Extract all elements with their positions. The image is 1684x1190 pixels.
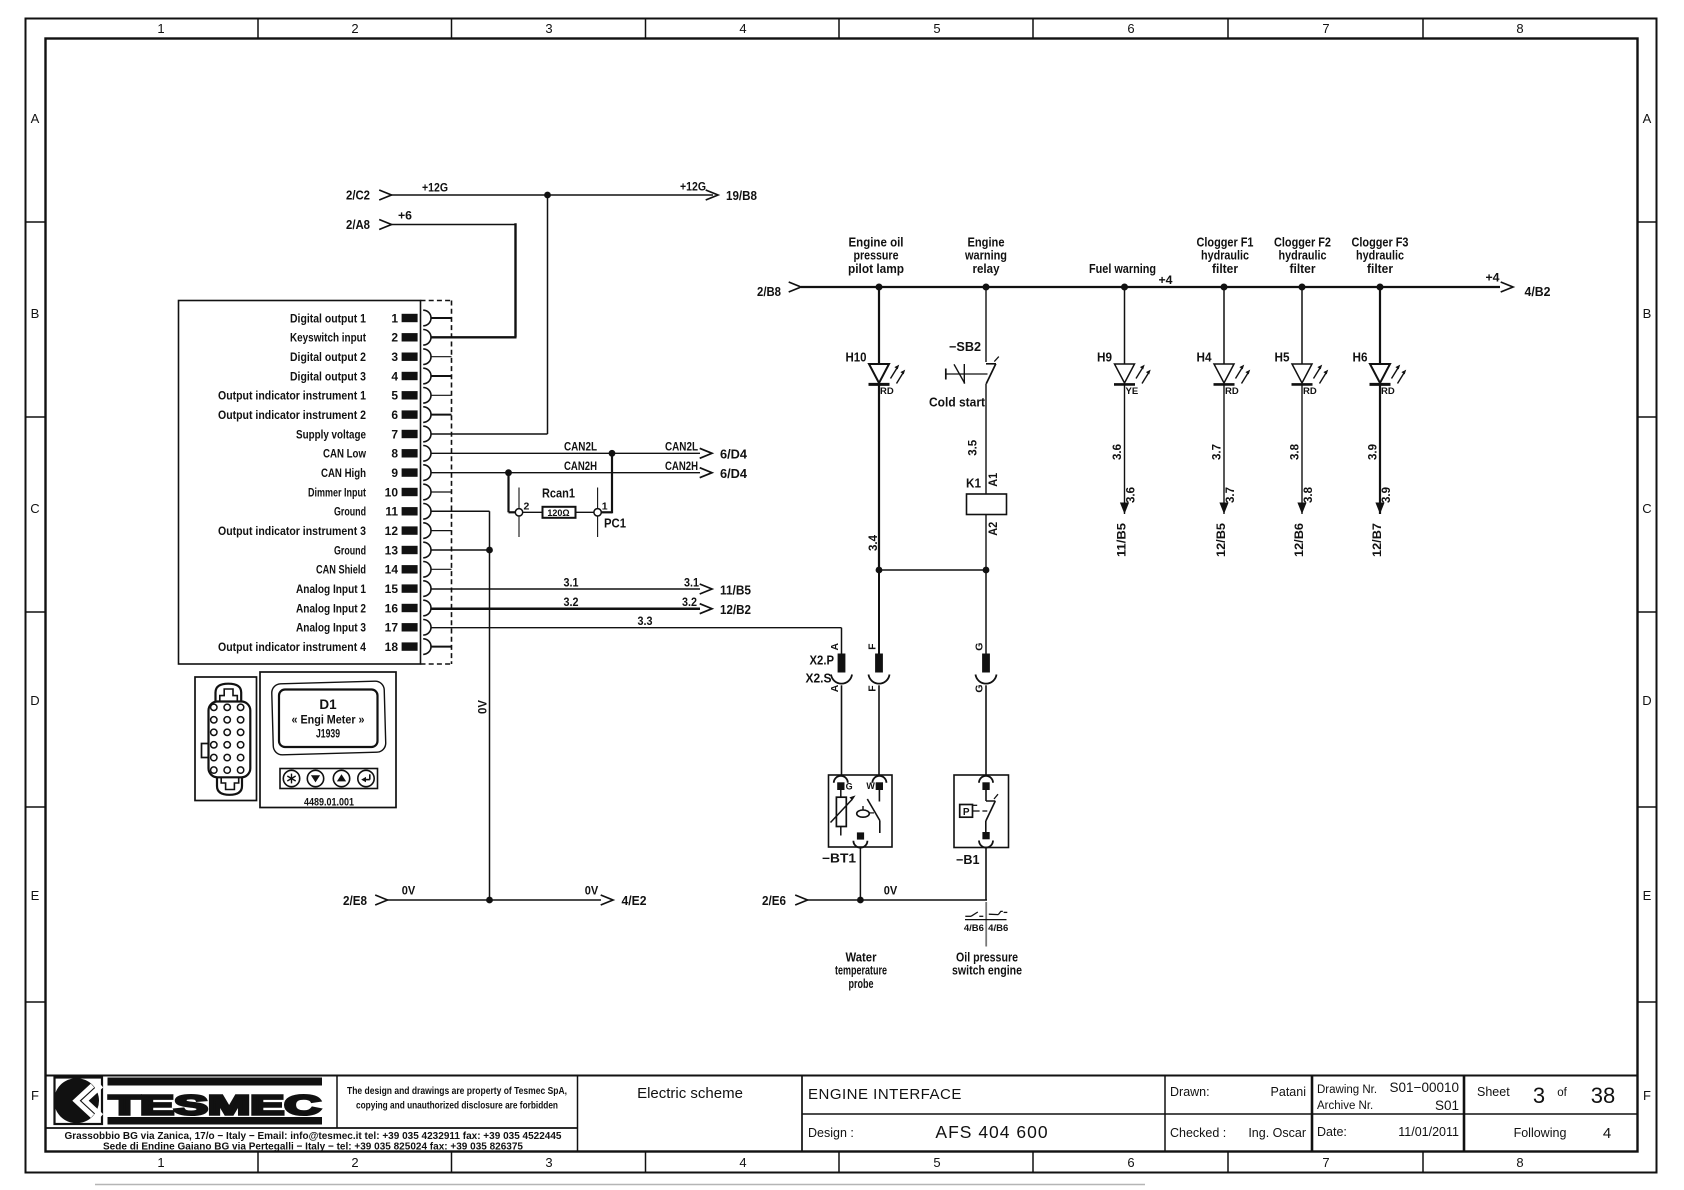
title block	[46, 1076, 1638, 1153]
svg-text:warning: warning	[964, 249, 1007, 263]
svg-text:3.9: 3.9	[1368, 444, 1380, 460]
svg-text:4: 4	[391, 369, 398, 383]
svg-text:11: 11	[385, 505, 398, 519]
connector X2.P / X2.S labels	[806, 654, 835, 686]
svg-text:Engine: Engine	[968, 236, 1005, 250]
wire CAN2H drop to Rcan1 pin 2	[509, 473, 516, 513]
svg-text:The design and drawings are pr: The design and drawings are property of …	[347, 1085, 567, 1097]
svg-text:H4: H4	[1197, 351, 1212, 365]
pin 7 Supply voltage	[296, 426, 431, 442]
svg-text:YE: YE	[1126, 386, 1139, 397]
svg-text:Patani: Patani	[1271, 1085, 1306, 1099]
svg-text:Output indicator instrument 4: Output indicator instrument 4	[218, 640, 366, 654]
pin 5 Output indicator instrument 1	[218, 388, 452, 404]
svg-text:Drawing Nr.: Drawing Nr.	[1317, 1084, 1377, 1096]
svg-text:Grassobbio BG via Zanica, 17: Grassobbio BG via Zanica, 17/o − Italy −…	[65, 1131, 562, 1142]
svg-text:12: 12	[385, 524, 399, 538]
svg-text:Engine oil: Engine oil	[849, 236, 904, 250]
junction 0V / pin11 ground node	[486, 897, 493, 904]
svg-text:5: 5	[933, 21, 940, 36]
svg-text:A: A	[31, 111, 40, 126]
svg-text:RD: RD	[1303, 386, 1317, 397]
connector block: 18-pin engine-interface connector	[179, 301, 452, 665]
svg-text:1: 1	[391, 311, 398, 325]
svg-text:E: E	[1643, 888, 1652, 903]
wire 3.3 pin 17 analog input 3 to X2.P pin A	[431, 616, 842, 654]
svg-text:H10: H10	[846, 351, 867, 365]
svg-text:RD: RD	[1225, 386, 1239, 397]
wire BT1 to 0V rail	[859, 848, 861, 900]
svg-text:3: 3	[1533, 1083, 1545, 1108]
svg-text:RD: RD	[880, 386, 894, 397]
svg-text:Ing. Oscar: Ing. Oscar	[1248, 1126, 1306, 1140]
lamp H6 (RD) indicator	[1353, 287, 1407, 397]
svg-text:14: 14	[385, 563, 399, 577]
svg-text:8: 8	[1516, 21, 1523, 36]
svg-text:5: 5	[391, 389, 398, 403]
svg-text:4: 4	[739, 1155, 746, 1170]
svg-text:+4: +4	[1159, 275, 1174, 287]
svg-text:2: 2	[524, 501, 530, 513]
junction +12G node	[544, 192, 551, 199]
svg-text:4: 4	[1603, 1125, 1611, 1142]
svg-text:filter: filter	[1212, 262, 1238, 276]
node label water temperature probe	[835, 951, 887, 991]
svg-text:RD: RD	[1381, 386, 1395, 397]
svg-text:15: 15	[385, 582, 399, 596]
svg-text:+4: +4	[1486, 273, 1501, 285]
wire +12G drop to pin 7 supply voltage	[431, 195, 548, 434]
svg-text:probe: probe	[849, 977, 874, 991]
svg-text:F: F	[1643, 1088, 1651, 1103]
lamp H10 (RD) indicator	[846, 287, 906, 397]
junction CAN2L node	[609, 450, 616, 457]
svg-text:10: 10	[385, 485, 399, 499]
svg-text:4/B2: 4/B2	[1525, 285, 1551, 299]
svg-text:Analog Input 1: Analog Input 1	[296, 582, 366, 596]
svg-text:A: A	[1643, 111, 1652, 126]
junction CAN2H node	[505, 469, 512, 476]
svg-text:3.2: 3.2	[564, 597, 579, 609]
svg-text:D: D	[30, 693, 39, 708]
svg-text:CAN2L: CAN2L	[564, 440, 597, 454]
pin 17 Analog Input 3	[296, 619, 431, 635]
svg-text:Output indicator instrument 3: Output indicator instrument 3	[218, 524, 366, 538]
svg-text:Date:: Date:	[1317, 1125, 1347, 1139]
svg-text:+6: +6	[398, 209, 412, 223]
svg-text:11/B5: 11/B5	[1117, 522, 1129, 557]
svg-text:Ground: Ground	[334, 543, 366, 557]
wire 3.8 lamp branch to 12/B6	[1290, 386, 1316, 558]
pin 9 CAN High	[321, 465, 431, 481]
wire pin 13 ground to 0V node	[431, 549, 490, 551]
svg-text:Ground: Ground	[334, 505, 366, 519]
svg-text:−B1: −B1	[956, 853, 980, 867]
connector X2 pin F	[867, 643, 890, 692]
svg-text:11/B5: 11/B5	[720, 584, 751, 598]
svg-text:1: 1	[602, 501, 608, 513]
pin 12 Output indicator instrument 3	[218, 523, 452, 539]
svg-text:X2.P: X2.P	[810, 654, 835, 668]
display D1 engine meter 4489.01.001	[260, 672, 396, 809]
svg-text:+12G: +12G	[422, 181, 448, 195]
pin 16 Analog Input 2	[296, 600, 431, 616]
svg-text:F: F	[31, 1088, 39, 1103]
wire 0V from pin 11 ground	[431, 511, 490, 900]
svg-text:3.8: 3.8	[1290, 443, 1302, 460]
svg-text:2/E8: 2/E8	[343, 894, 367, 908]
wire X2 pin F to BT1 W	[878, 685, 880, 775]
svg-text:3.9: 3.9	[1381, 487, 1393, 503]
svg-text:−SB2: −SB2	[949, 340, 981, 354]
svg-text:CAN2L: CAN2L	[665, 440, 698, 454]
svg-text:TESMEC: TESMEC	[109, 1090, 321, 1121]
svg-text:S01: S01	[1435, 1098, 1459, 1113]
wire B1 to 0V rail	[985, 848, 987, 901]
svg-text:7: 7	[391, 427, 398, 441]
wire 3.2 pin 16 analog input 2 to 12/B2	[431, 597, 751, 617]
svg-text:A1: A1	[988, 472, 1000, 487]
wire PC1.1 up to CAN2L	[601, 453, 612, 513]
svg-text:6/D4: 6/D4	[720, 467, 747, 481]
connector X2 pin G	[974, 643, 997, 693]
svg-text:« Engi Meter »: « Engi Meter »	[292, 715, 365, 727]
wire X2 pin A to BT1 G	[841, 685, 843, 775]
svg-text:3.7: 3.7	[1212, 444, 1224, 460]
svg-text:0V: 0V	[884, 886, 898, 898]
svg-text:Archive Nr.: Archive Nr.	[1317, 1100, 1373, 1112]
svg-text:120Ω: 120Ω	[547, 508, 569, 518]
svg-text:Design :: Design :	[808, 1126, 854, 1140]
svg-text:Clogger F3: Clogger F3	[1352, 236, 1409, 250]
svg-text:A2: A2	[988, 522, 1000, 536]
svg-text:18: 18	[385, 640, 399, 654]
junction pin13/0V node	[486, 547, 493, 554]
svg-text:8: 8	[391, 447, 398, 461]
svg-text:G: G	[974, 684, 986, 692]
svg-text:F: F	[867, 685, 879, 692]
wire 3.7 lamp branch to 12/B5	[1212, 386, 1238, 558]
svg-text:E: E	[31, 888, 40, 903]
svg-text:3.8: 3.8	[1303, 486, 1315, 503]
svg-text:Analog Input 3: Analog Input 3	[296, 621, 366, 635]
svg-text:3.5: 3.5	[967, 439, 979, 456]
svg-text:B: B	[31, 306, 40, 321]
svg-text:filter: filter	[1367, 262, 1393, 276]
svg-text:of: of	[1557, 1087, 1567, 1099]
pin 14 CAN Shield	[316, 562, 452, 578]
wire link H10 branch to K1 branch	[879, 569, 986, 571]
svg-text:7: 7	[1322, 21, 1329, 36]
svg-text:CAN Shield: CAN Shield	[316, 563, 366, 577]
connector PC1 pin 1	[594, 488, 626, 538]
svg-text:C: C	[1642, 501, 1651, 516]
node labels above +4 bus	[848, 236, 1409, 276]
svg-text:1: 1	[157, 1155, 164, 1170]
wire CAN2L pin 8 to 6/D4	[431, 440, 747, 462]
svg-text:3.2: 3.2	[682, 597, 697, 609]
svg-text:Sede di Endine Gaiano BG via P: Sede di Endine Gaiano BG via Pertegalli …	[103, 1142, 523, 1153]
svg-text:switch engine: switch engine	[952, 964, 1022, 978]
pin 1 Digital output 1	[290, 310, 452, 326]
wire X2 pin G to B1	[985, 685, 987, 775]
svg-text:D1: D1	[319, 697, 337, 712]
svg-text:Keyswitch input: Keyswitch input	[290, 331, 366, 345]
svg-text:H6: H6	[1353, 351, 1368, 365]
svg-text:2: 2	[351, 1155, 358, 1170]
svg-text:S01−00010: S01−00010	[1390, 1080, 1459, 1095]
wire K1 branch down to X2 pin G	[985, 570, 987, 654]
svg-text:A: A	[829, 642, 841, 650]
junction +4 bus nodes	[876, 284, 1384, 291]
svg-text:2/C2: 2/C2	[346, 189, 370, 203]
wire CAN2H pin 9 to 6/D4	[431, 459, 747, 481]
svg-text:pressure: pressure	[854, 249, 899, 263]
svg-text:F: F	[867, 643, 879, 650]
svg-text:4/B6: 4/B6	[964, 923, 984, 934]
svg-text:16: 16	[385, 601, 399, 615]
wire 3.5 SB2 to K1 coil A1	[967, 384, 1000, 494]
wire 3.9 lamp branch to 12/B7	[1368, 386, 1394, 558]
svg-text:3.4: 3.4	[868, 534, 880, 551]
svg-text:ENGINE INTERFACE: ENGINE INTERFACE	[808, 1086, 962, 1103]
svg-text:Digital output 3: Digital output 3	[290, 369, 366, 383]
wire +4 bus from 2/B8 to 4/B2	[757, 273, 1551, 299]
svg-text:38: 38	[1591, 1083, 1615, 1108]
svg-text:13: 13	[385, 543, 399, 557]
pin 6 Output indicator instrument 2	[218, 407, 452, 423]
svg-text:2: 2	[391, 331, 398, 345]
svg-text:Cold start: Cold start	[929, 396, 986, 410]
svg-text:19/B8: 19/B8	[726, 189, 757, 203]
svg-text:D: D	[1642, 693, 1651, 708]
svg-text:0V: 0V	[402, 886, 416, 898]
wire +12G from 2/C2 to 19/B8	[346, 180, 757, 204]
svg-text:G: G	[846, 781, 853, 791]
pin 3 Digital output 2	[290, 349, 452, 365]
svg-text:Digital output 2: Digital output 2	[290, 350, 366, 364]
svg-text:Following: Following	[1514, 1126, 1567, 1140]
svg-text:X2.S: X2.S	[806, 672, 832, 686]
svg-text:Fuel warning: Fuel warning	[1089, 262, 1156, 276]
wire 0V rail from 2/E8 to 4/E2	[343, 886, 647, 908]
svg-text:H9: H9	[1097, 351, 1112, 365]
svg-text:+12G: +12G	[680, 180, 706, 194]
svg-text:hydraulic: hydraulic	[1201, 249, 1249, 263]
svg-text:Clogger F2: Clogger F2	[1274, 236, 1331, 250]
svg-text:17: 17	[385, 621, 399, 635]
pin 18 Output indicator instrument 4	[218, 639, 452, 655]
svg-text:Oil pressure: Oil pressure	[956, 951, 1018, 965]
wire 3.4 H10 to X2.S pin F	[868, 384, 880, 570]
svg-text:11/01/2011: 11/01/2011	[1398, 1125, 1459, 1139]
wire Rcan1 to PC1.1	[576, 511, 595, 513]
svg-text:B: B	[1643, 306, 1652, 321]
svg-text:3.6: 3.6	[1112, 444, 1124, 460]
svg-text:Drawn:: Drawn:	[1170, 1085, 1210, 1099]
svg-text:Analog Input 2: Analog Input 2	[296, 601, 366, 615]
svg-text:2/E6: 2/E6	[762, 894, 786, 908]
wire 3.1 pin 15 analog input 1 to 11/B5	[431, 577, 751, 597]
wire 3.6 lamp branch to 11/B5	[1112, 386, 1138, 558]
svg-text:C: C	[30, 501, 39, 516]
svg-text:3: 3	[391, 350, 398, 364]
svg-text:6: 6	[1127, 21, 1134, 36]
pin 4 Digital output 3	[290, 368, 452, 384]
svg-text:0V: 0V	[478, 700, 490, 714]
svg-text:temperature: temperature	[835, 964, 887, 978]
svg-text:CAN2H: CAN2H	[564, 459, 597, 473]
svg-text:PC1: PC1	[604, 517, 626, 531]
svg-text:3.1: 3.1	[684, 577, 700, 589]
svg-text:Supply voltage: Supply voltage	[296, 427, 366, 441]
svg-text:Digital output 1: Digital output 1	[290, 311, 366, 325]
svg-text:9: 9	[391, 466, 398, 480]
wire H10 branch down to X2 pin F	[878, 570, 880, 654]
svg-text:Water: Water	[846, 951, 877, 965]
svg-text:hydraulic: hydraulic	[1279, 249, 1327, 263]
wire K1 A2 to X2.S pin G	[986, 515, 1000, 571]
svg-text:AFS 404 600: AFS 404 600	[935, 1122, 1048, 1142]
svg-text:Clogger F1: Clogger F1	[1197, 236, 1254, 250]
relay coil K1	[966, 477, 1007, 515]
junction node K1/B1	[983, 567, 990, 574]
svg-text:CAN Low: CAN Low	[323, 447, 367, 461]
switch SB2 cold start pushbutton	[929, 287, 999, 410]
svg-text:Checked :: Checked :	[1170, 1126, 1226, 1140]
svg-text:W: W	[866, 781, 875, 791]
svg-text:2/B8: 2/B8	[757, 285, 781, 299]
svg-text:7: 7	[1322, 1155, 1329, 1170]
svg-text:3.3: 3.3	[638, 616, 653, 628]
connector plug face view (18-way)	[195, 677, 257, 801]
pin 10 Dimmer Input	[308, 484, 452, 500]
svg-text:copying and unauthorized discl: copying and unauthorized disclosure are …	[356, 1100, 558, 1112]
pin 15 Analog Input 1	[296, 581, 431, 597]
node label oil pressure switch engine	[952, 951, 1022, 978]
svg-text:6: 6	[391, 408, 398, 422]
svg-text:H5: H5	[1275, 351, 1290, 365]
junction node H10/X2.P	[876, 567, 883, 574]
wire +6 from 2/A8 to pin 2 keyswitch input	[346, 209, 517, 338]
svg-text:4489.01.001: 4489.01.001	[304, 797, 354, 809]
wire PC1.2 to Rcan1	[523, 511, 543, 513]
svg-text:Sheet: Sheet	[1477, 1085, 1510, 1099]
svg-text:hydraulic: hydraulic	[1356, 249, 1404, 263]
svg-text:8: 8	[1516, 1155, 1523, 1170]
wire 0V rail from 2/E6 to B1	[762, 886, 987, 908]
svg-text:G: G	[974, 643, 986, 651]
svg-text:4/E2: 4/E2	[622, 894, 647, 908]
svg-text:6/D4: 6/D4	[720, 448, 747, 462]
svg-text:12/B7: 12/B7	[1372, 523, 1384, 557]
svg-text:12/B5: 12/B5	[1216, 522, 1228, 557]
svg-text:0V: 0V	[585, 886, 599, 898]
connector PC1 pin 2	[515, 488, 529, 538]
svg-text:relay: relay	[973, 262, 1000, 276]
svg-text:P: P	[963, 807, 970, 818]
svg-text:3.1: 3.1	[564, 577, 580, 589]
svg-text:4: 4	[739, 21, 746, 36]
pin 8 CAN Low	[323, 445, 431, 461]
svg-text:−BT1: −BT1	[822, 852, 856, 866]
svg-text:J1939: J1939	[316, 729, 340, 741]
svg-text:filter: filter	[1290, 262, 1316, 276]
svg-text:Electric scheme: Electric scheme	[637, 1085, 743, 1102]
svg-text:4/B6: 4/B6	[988, 923, 1008, 934]
svg-text:Output indicator instrument 1: Output indicator instrument 1	[218, 389, 366, 403]
svg-text:3.6: 3.6	[1126, 487, 1138, 503]
K1 contact cross-references 4/B6	[964, 902, 1008, 947]
pin 13 Ground	[334, 542, 431, 558]
svg-text:Output indicator instrument 2: Output indicator instrument 2	[218, 408, 366, 422]
svg-text:5: 5	[933, 1155, 940, 1170]
svg-text:3.7: 3.7	[1225, 487, 1237, 503]
connector X2 pin A	[829, 642, 852, 692]
svg-text:12/B2: 12/B2	[720, 603, 751, 617]
svg-text:A: A	[829, 684, 841, 692]
svg-text:Rcan1: Rcan1	[542, 487, 575, 501]
svg-text:3: 3	[545, 21, 552, 36]
sensor BT1 water temperature probe	[822, 775, 892, 866]
pin 11 Ground	[334, 504, 431, 520]
svg-text:CAN2H: CAN2H	[665, 459, 698, 473]
svg-text:CAN High: CAN High	[321, 466, 366, 480]
lamp H9 (YE) indicator	[1097, 287, 1151, 397]
svg-text:3: 3	[545, 1155, 552, 1170]
sensor B1 oil pressure switch	[954, 775, 1009, 867]
lamp H5 (RD) indicator	[1275, 287, 1329, 397]
svg-text:12/B6: 12/B6	[1294, 523, 1306, 557]
svg-text:1: 1	[157, 21, 164, 36]
junction BT1 / 0V node	[857, 897, 864, 904]
svg-text:6: 6	[1127, 1155, 1134, 1170]
svg-text:2/A8: 2/A8	[346, 218, 370, 232]
svg-text:2: 2	[351, 21, 358, 36]
lamp H4 (RD) indicator	[1197, 287, 1251, 397]
svg-text:K1: K1	[966, 477, 981, 491]
svg-text:pilot lamp: pilot lamp	[848, 262, 904, 276]
pin 2 Keyswitch input	[290, 330, 431, 346]
resistor Rcan1 120 ohm CAN terminator	[542, 487, 576, 519]
svg-text:Dimmer Input: Dimmer Input	[308, 485, 366, 499]
